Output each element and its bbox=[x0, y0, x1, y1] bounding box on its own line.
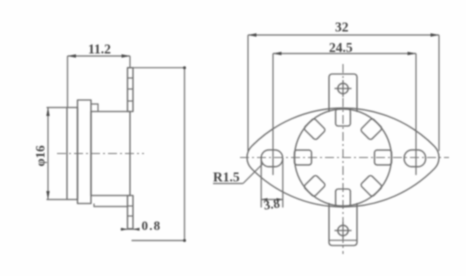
svg-text:3.8: 3.8 bbox=[263, 195, 282, 212]
svg-text:0.8: 0.8 bbox=[142, 218, 162, 233]
svg-text:R1.5: R1.5 bbox=[213, 170, 240, 185]
svg-text:φ16: φ16 bbox=[33, 145, 48, 167]
svg-text:24.5: 24.5 bbox=[329, 40, 353, 55]
svg-text:11.2: 11.2 bbox=[88, 42, 111, 57]
svg-text:32: 32 bbox=[335, 20, 349, 35]
